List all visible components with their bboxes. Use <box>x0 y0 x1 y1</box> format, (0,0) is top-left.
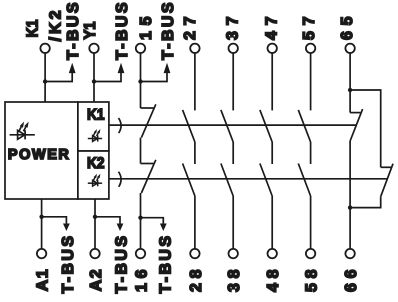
svg-text:T-BUS: T-BUS <box>65 2 82 60</box>
svg-text:T-BUS: T-BUS <box>60 236 77 294</box>
wire terminal Y1 to K1 coil box <box>93 53 95 102</box>
terminal 58 bottom circle <box>306 249 315 258</box>
T-BUS arrow bottom 1 (down) <box>63 224 70 232</box>
wire 65-66 right return <box>350 197 381 208</box>
wire T-BUS branch bottom 1 <box>42 217 67 225</box>
svg-text:A1: A1 <box>35 269 52 291</box>
wire terminal 57 down <box>310 53 312 111</box>
wire T-BUS branch bottom 2 <box>95 217 120 225</box>
svg-text:T-BUS: T-BUS <box>114 236 131 294</box>
wire 57-58 mid <box>310 142 312 164</box>
terminal 65 top circle <box>345 44 354 53</box>
NO contact 37-38 upper blade (K1) <box>221 110 233 142</box>
junction Y1 T-BUS tap <box>92 79 96 83</box>
svg-text:16: 16 <box>133 269 150 292</box>
NC contact 65-66 left blade <box>350 109 363 141</box>
svg-text:66: 66 <box>343 269 360 292</box>
svg-text:57: 57 <box>301 16 318 40</box>
wire 37-38 to terminal 38 <box>232 196 234 249</box>
K1 mechanical actuation line <box>109 124 357 126</box>
svg-text:T-BUS: T-BUS <box>157 236 174 294</box>
svg-text:38: 38 <box>226 269 243 292</box>
wire terminal 37 down <box>232 53 234 111</box>
svg-text:27: 27 <box>182 16 199 40</box>
junction 66 <box>348 205 352 209</box>
NO contact 37-38 lower blade (K2) <box>221 164 233 197</box>
junction 16 T-BUS tap <box>138 216 142 220</box>
svg-text:POWER: POWER <box>8 147 70 163</box>
terminal 16 bottom circle <box>136 249 145 258</box>
terminal 38 bottom circle <box>229 249 238 258</box>
relay K1 coil box <box>78 102 109 151</box>
wire 37-38 mid <box>232 142 234 164</box>
junction 15 T-BUS tap <box>138 79 142 83</box>
NO contact 27-28 upper blade (K1) <box>183 110 195 142</box>
svg-text:48: 48 <box>265 269 282 292</box>
wire terminal 47 down <box>271 53 273 111</box>
terminal K1 //K2 top circle <box>40 44 49 53</box>
terminal 15 top circle <box>136 44 145 53</box>
svg-text:/K2: /K2 <box>48 10 65 41</box>
NC contact 65-66 right blade <box>381 164 393 197</box>
LED K2 <box>88 174 102 187</box>
junction K1 T-BUS tap <box>43 79 47 83</box>
T-BUS arrow 1 (up) <box>69 63 76 73</box>
svg-text:K1: K1 <box>24 19 41 37</box>
terminal Y1 top circle <box>89 44 98 53</box>
svg-text:T-BUS: T-BUS <box>114 2 131 60</box>
NO contact 47-48 lower blade (K2) <box>260 164 272 197</box>
NC contact 15-16 lower blade <box>141 160 155 193</box>
NO contact 57-58 upper blade (K1) <box>298 110 310 142</box>
wire A1 from POWER box <box>41 199 43 249</box>
svg-text:Y1: Y1 <box>82 21 99 39</box>
svg-text:37: 37 <box>224 16 241 40</box>
terminal 66 bottom circle <box>345 249 354 258</box>
svg-text:K2: K2 <box>87 155 105 172</box>
svg-text:28: 28 <box>188 269 205 292</box>
terminal 28 bottom circle <box>190 249 199 258</box>
wire A2 from K2 coil box <box>94 199 96 249</box>
wire terminal 65 down <box>349 53 351 113</box>
wire T-BUS branch 2 <box>94 71 121 82</box>
terminal A1 bottom circle <box>37 249 46 258</box>
svg-text:47: 47 <box>264 16 281 40</box>
wire T-BUS branch 1 <box>45 71 72 82</box>
terminal 27 top circle <box>190 44 199 53</box>
T-BUS arrow 3 (up) <box>164 63 171 73</box>
wire T-BUS branch bottom 3 <box>141 218 164 225</box>
wire 65-66 left vertical <box>349 141 351 249</box>
wire 27-28 mid <box>194 142 196 164</box>
junction A2 T-BUS tap <box>93 215 97 219</box>
K2 actuator arc <box>119 172 122 187</box>
NC contact 15-16 upper (K1) seat <box>141 107 154 109</box>
terminal A2 bottom circle <box>90 249 99 258</box>
wire T-BUS branch 3 <box>141 71 168 82</box>
svg-text:15: 15 <box>138 16 155 40</box>
NC contact 15-16 upper blade <box>141 104 155 137</box>
wire 47-48 mid <box>271 142 273 164</box>
wire terminal 15 down <box>140 53 142 108</box>
T-BUS arrow 2 (up) <box>118 63 125 73</box>
svg-text:K1: K1 <box>87 106 105 123</box>
wire terminal 27 down <box>194 53 196 111</box>
wire 15-16 to terminal 16 <box>140 193 142 249</box>
junction A1 T-BUS tap <box>39 215 43 219</box>
wire 65 right branch top <box>350 90 381 167</box>
terminal 57 top circle <box>306 44 315 53</box>
NO contact 27-28 lower blade (K2) <box>183 164 195 197</box>
terminal 47 top circle <box>268 44 277 53</box>
svg-text:T-BUS: T-BUS <box>160 2 177 60</box>
wire 47-48 to terminal 48 <box>271 196 273 249</box>
wire terminal K1 to POWER box <box>44 53 46 102</box>
LED K1 <box>88 129 102 142</box>
T-BUS arrow bottom 3 (down) <box>160 224 167 232</box>
LED power <box>10 122 35 140</box>
wire 57-58 to terminal 58 <box>310 196 312 249</box>
K2 mechanical actuation line <box>109 178 387 180</box>
NO contact 47-48 upper blade (K1) <box>260 110 272 142</box>
terminal 37 top circle <box>229 44 238 53</box>
K1 actuator arc <box>119 118 122 133</box>
T-BUS arrow bottom 2 (down) <box>117 224 124 232</box>
svg-text:A2: A2 <box>88 269 105 291</box>
relay K2 coil box <box>78 151 109 199</box>
junction 65 branch <box>348 88 352 92</box>
terminal 48 bottom circle <box>268 249 277 258</box>
NC contact 15-16 lower (K2) seat <box>141 163 154 165</box>
NC contact 65-66 right (K2) seat <box>381 166 392 168</box>
NO contact 57-58 lower blade (K2) <box>298 164 310 197</box>
wire 27-28 to terminal 28 <box>194 196 196 249</box>
svg-text:65: 65 <box>339 16 356 40</box>
NC contact 65-66 left (K1) seat <box>350 112 360 114</box>
POWER box <box>5 102 78 199</box>
wire 15-16 mid <box>140 138 142 164</box>
svg-text:58: 58 <box>304 269 321 292</box>
